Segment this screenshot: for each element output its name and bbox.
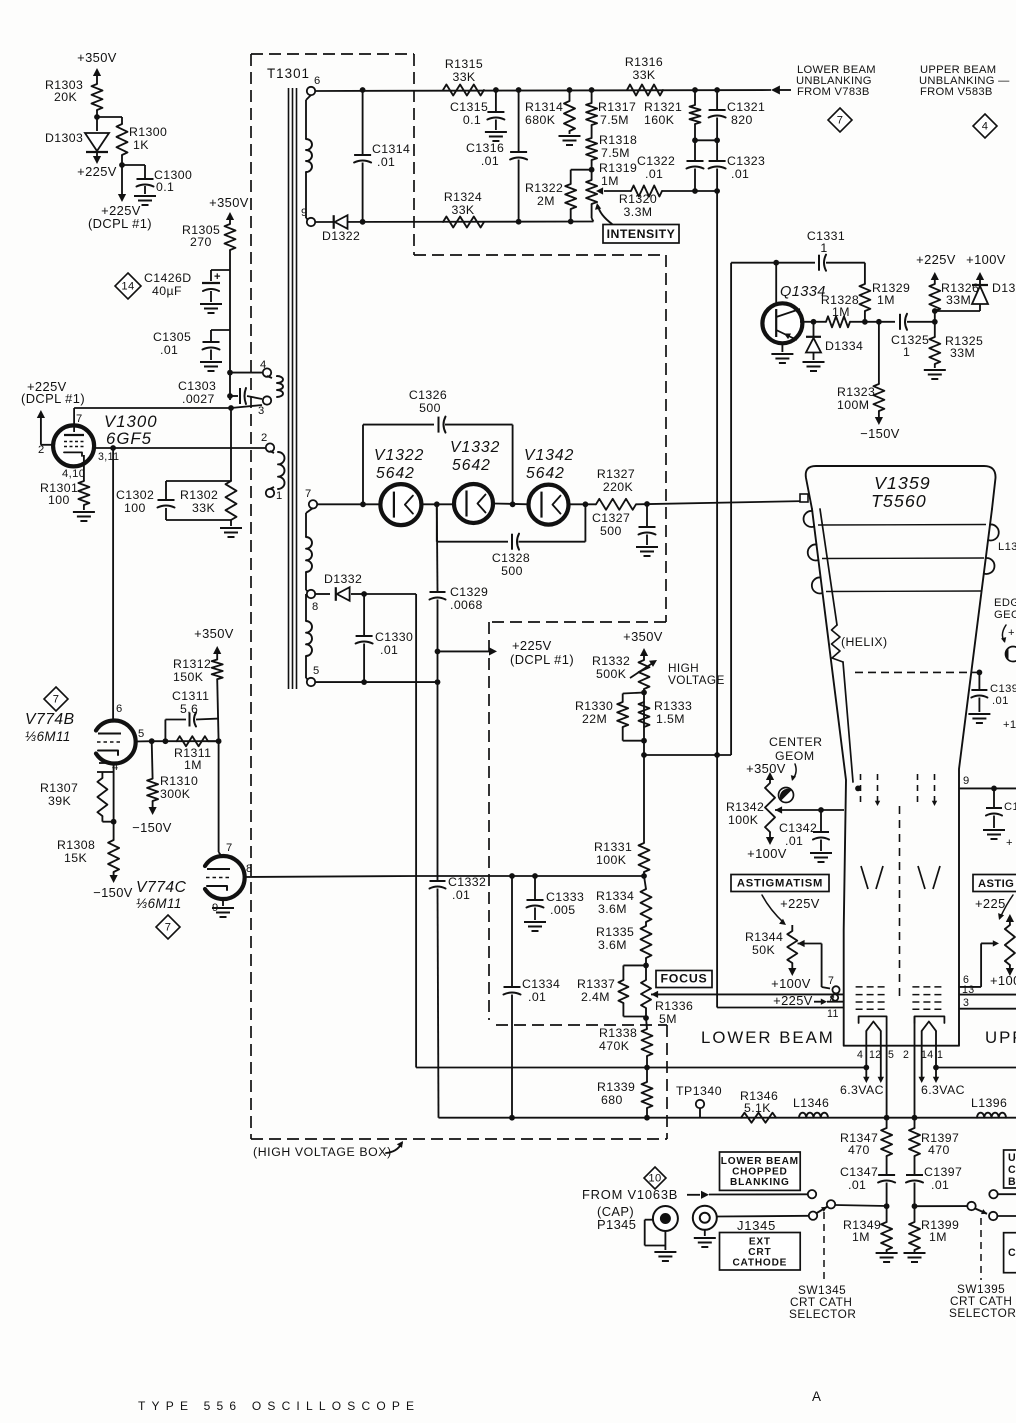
svg-text:500: 500 [501, 564, 523, 578]
svg-text:1M: 1M [184, 758, 202, 772]
svg-text:7: 7 [828, 975, 834, 987]
svg-text:R1320: R1320 [619, 192, 657, 206]
svg-text:(DCPL #1): (DCPL #1) [21, 391, 85, 406]
svg-text:R1315: R1315 [445, 57, 483, 71]
svg-text:C: C [1008, 1247, 1016, 1259]
svg-text:2.4M: 2.4M [581, 990, 610, 1004]
svg-text:4: 4 [260, 359, 267, 371]
svg-text:C1342: C1342 [779, 821, 817, 835]
svg-text:1: 1 [276, 490, 283, 502]
svg-text:.01: .01 [380, 643, 398, 657]
svg-text:GEOM: GEOM [994, 609, 1016, 621]
svg-text:2M: 2M [537, 194, 555, 208]
svg-text:R1342: R1342 [726, 800, 764, 814]
svg-text:5.1K: 5.1K [744, 1101, 771, 1115]
svg-text:7: 7 [226, 842, 233, 854]
svg-text:C1328: C1328 [492, 551, 530, 565]
svg-text:680K: 680K [525, 113, 556, 127]
svg-text:100M: 100M [837, 398, 869, 412]
svg-text:680: 680 [601, 1093, 623, 1107]
svg-text:R1302: R1302 [180, 488, 218, 502]
svg-text:100: 100 [124, 501, 146, 515]
svg-text:T5560: T5560 [871, 491, 927, 511]
svg-text:5642: 5642 [526, 465, 565, 482]
svg-text:3.6M: 3.6M [598, 902, 627, 916]
svg-text:.0068: .0068 [450, 598, 483, 612]
svg-text:7: 7 [837, 115, 844, 127]
svg-text:C1316: C1316 [466, 141, 504, 155]
svg-text:R1317: R1317 [598, 100, 636, 114]
svg-text:+225V: +225V [780, 896, 820, 911]
svg-text:.005: .005 [550, 903, 576, 917]
svg-text:1M: 1M [601, 174, 619, 188]
svg-text:R1336: R1336 [655, 999, 693, 1013]
svg-text:C139: C139 [990, 683, 1016, 695]
svg-text:V774B: V774B [25, 711, 75, 728]
svg-text:100K: 100K [596, 853, 627, 867]
svg-text:9: 9 [301, 207, 308, 219]
svg-text:INTENSITY: INTENSITY [607, 227, 676, 241]
svg-text:14: 14 [121, 281, 134, 293]
svg-text:R1314: R1314 [525, 100, 563, 114]
svg-text:Q1334: Q1334 [780, 284, 826, 300]
svg-text:C1326: C1326 [409, 388, 447, 402]
svg-text:C1302: C1302 [116, 488, 154, 502]
svg-text:FROM V783B: FROM V783B [797, 86, 870, 98]
svg-text:UPPE: UPPE [985, 1028, 1016, 1047]
svg-text:LOWER BEAM: LOWER BEAM [701, 1028, 835, 1047]
svg-text:ASTIGMATISM: ASTIGMATISM [737, 878, 823, 890]
svg-text:.0027: .0027 [182, 392, 215, 406]
svg-text:EXT: EXT [749, 1236, 771, 1247]
svg-text:D1326: D1326 [992, 281, 1016, 295]
svg-text:4: 4 [857, 1049, 863, 1061]
svg-text:R1318: R1318 [599, 133, 637, 147]
svg-text:+225: +225 [975, 896, 1006, 911]
svg-text:R1324: R1324 [444, 190, 482, 204]
svg-text:V774C: V774C [136, 879, 187, 896]
svg-text:+225V: +225V [916, 252, 956, 267]
svg-text:C1321: C1321 [727, 100, 765, 114]
svg-text:5: 5 [138, 728, 145, 740]
svg-text:ASTIG: ASTIG [978, 878, 1014, 890]
svg-text:500K: 500K [596, 667, 627, 681]
svg-text:300K: 300K [160, 787, 191, 801]
svg-text:R1338: R1338 [599, 1026, 637, 1040]
svg-text:5: 5 [888, 1049, 894, 1061]
svg-text:R1300: R1300 [129, 125, 167, 139]
svg-text:9: 9 [963, 775, 970, 787]
svg-text:C1305: C1305 [153, 330, 191, 344]
svg-text:D1322: D1322 [322, 229, 360, 243]
svg-text:33K: 33K [192, 501, 215, 515]
svg-text:⅓6M11: ⅓6M11 [25, 729, 71, 744]
svg-text:7.5M: 7.5M [601, 146, 630, 160]
svg-text:C13: C13 [1004, 801, 1016, 813]
svg-text:CHOPPED: CHOPPED [732, 1167, 788, 1178]
svg-text:1M: 1M [877, 293, 895, 307]
svg-text:⅓6M11: ⅓6M11 [136, 896, 182, 911]
svg-text:R1323: R1323 [837, 385, 875, 399]
svg-text:C: C [1008, 1164, 1016, 1176]
svg-text:470K: 470K [599, 1039, 630, 1053]
svg-text:R1339: R1339 [597, 1080, 635, 1094]
svg-text:R1344: R1344 [745, 930, 783, 944]
svg-text:0.1: 0.1 [463, 113, 481, 127]
svg-text:C1315: C1315 [450, 100, 488, 114]
svg-text:6: 6 [314, 75, 321, 87]
svg-text:.01: .01 [377, 155, 395, 169]
svg-text:39K: 39K [48, 794, 71, 808]
svg-text:470: 470 [928, 1143, 950, 1157]
svg-text:R1310: R1310 [160, 774, 198, 788]
svg-text:270: 270 [190, 235, 212, 249]
svg-text:+100V: +100V [771, 976, 811, 991]
svg-text:C1303: C1303 [178, 379, 216, 393]
svg-text:.01: .01 [452, 888, 470, 902]
svg-text:2: 2 [261, 432, 268, 444]
svg-text:0.1: 0.1 [156, 180, 174, 194]
svg-text:R1332: R1332 [592, 654, 630, 668]
svg-text:+225V: +225V [773, 993, 813, 1008]
svg-text:5: 5 [313, 665, 320, 677]
svg-text:33K: 33K [452, 70, 475, 84]
svg-text:C1323: C1323 [727, 154, 765, 168]
svg-text:.01: .01 [785, 834, 803, 848]
svg-text:R1334: R1334 [596, 889, 634, 903]
svg-text:C1333: C1333 [546, 890, 584, 904]
svg-text:+100V: +100V [966, 252, 1006, 267]
svg-text:V1322: V1322 [374, 447, 424, 464]
svg-text:470: 470 [848, 1143, 870, 1157]
svg-text:5.6: 5.6 [180, 702, 198, 716]
svg-text:.01: .01 [528, 990, 546, 1004]
svg-text:3: 3 [963, 997, 969, 1009]
svg-text:6GF5: 6GF5 [106, 429, 152, 448]
svg-text:+350V: +350V [209, 195, 249, 210]
svg-text:2: 2 [38, 444, 45, 456]
svg-text:500: 500 [419, 401, 441, 415]
svg-text:B: B [1008, 1176, 1016, 1188]
svg-text:33M: 33M [946, 293, 971, 307]
svg-text:33K: 33K [451, 203, 474, 217]
svg-text:CATHODE: CATHODE [732, 1257, 787, 1268]
svg-text:7: 7 [305, 488, 312, 500]
svg-text:8: 8 [246, 863, 253, 875]
svg-text:+: + [1008, 627, 1015, 639]
svg-text:R1322: R1322 [525, 181, 563, 195]
svg-text:R1330: R1330 [575, 699, 613, 713]
svg-text:+: + [214, 271, 221, 283]
svg-text:FOCUS: FOCUS [660, 972, 707, 986]
svg-text:3.3M: 3.3M [624, 205, 653, 219]
svg-text:2: 2 [903, 1049, 909, 1061]
svg-text:R1327: R1327 [597, 467, 635, 481]
svg-text:R1307: R1307 [40, 781, 78, 795]
svg-text:1M: 1M [832, 305, 850, 319]
svg-text:1K: 1K [133, 138, 149, 152]
svg-text:C1347: C1347 [840, 1165, 878, 1179]
svg-text:CRT: CRT [748, 1247, 771, 1258]
svg-text:+225V: +225V [77, 164, 117, 179]
svg-text:C1330: C1330 [375, 630, 413, 644]
svg-text:R1337: R1337 [577, 977, 615, 991]
svg-text:C1329: C1329 [450, 585, 488, 599]
svg-text:500: 500 [600, 524, 622, 538]
svg-text:40µF: 40µF [152, 284, 182, 298]
svg-text:(DCPL #1): (DCPL #1) [88, 216, 152, 231]
svg-text:.01: .01 [481, 154, 499, 168]
svg-text:33K: 33K [632, 68, 655, 82]
svg-text:J1345: J1345 [737, 1218, 776, 1233]
svg-text:1M: 1M [929, 1230, 947, 1244]
svg-text:14: 14 [921, 1049, 934, 1061]
svg-text:5M: 5M [659, 1012, 677, 1026]
svg-text:8: 8 [830, 994, 836, 1005]
svg-text:V1342: V1342 [524, 447, 574, 464]
svg-text:+350V: +350V [194, 626, 234, 641]
svg-text:R1308: R1308 [57, 838, 95, 852]
svg-text:160K: 160K [644, 113, 675, 127]
svg-text:(HELIX): (HELIX) [841, 635, 888, 649]
svg-text:.01: .01 [731, 167, 749, 181]
svg-text:1: 1 [903, 345, 910, 359]
svg-text:20K: 20K [54, 90, 77, 104]
svg-text:1M: 1M [852, 1230, 870, 1244]
svg-text:C1322: C1322 [637, 154, 675, 168]
svg-text:C1397: C1397 [924, 1165, 962, 1179]
svg-text:SELECTOR: SELECTOR [789, 1307, 856, 1321]
svg-text:.01: .01 [848, 1178, 866, 1192]
svg-text:R1335: R1335 [596, 925, 634, 939]
svg-text:T1301: T1301 [267, 66, 310, 81]
svg-text:U: U [1008, 1152, 1016, 1164]
svg-text:R1319: R1319 [599, 161, 637, 175]
svg-text:BLANKING: BLANKING [730, 1177, 790, 1188]
svg-text:50K: 50K [752, 943, 775, 957]
svg-text:6: 6 [116, 703, 123, 715]
svg-text:D1334: D1334 [825, 339, 863, 353]
svg-text:R1312: R1312 [173, 657, 211, 671]
svg-text:1.5M: 1.5M [656, 712, 685, 726]
svg-text:4: 4 [982, 121, 989, 133]
svg-text:1: 1 [820, 241, 827, 255]
svg-text:3: 3 [258, 405, 265, 417]
svg-text:L1346: L1346 [793, 1096, 829, 1110]
svg-text:C1334: C1334 [522, 977, 560, 991]
svg-text:7: 7 [53, 694, 60, 706]
svg-text:R1316: R1316 [625, 55, 663, 69]
svg-text:D1303: D1303 [45, 131, 83, 145]
svg-text:A: A [812, 1389, 822, 1404]
svg-text:33M: 33M [950, 346, 975, 360]
svg-text:7: 7 [165, 922, 172, 934]
svg-text:−150V: −150V [132, 820, 172, 835]
svg-text:FROM V1063B: FROM V1063B [582, 1187, 678, 1202]
svg-text:C1332: C1332 [448, 875, 486, 889]
svg-text:8: 8 [312, 601, 319, 613]
svg-text:150K: 150K [173, 670, 204, 684]
svg-text:R1333: R1333 [654, 699, 692, 713]
svg-text:15K: 15K [64, 851, 87, 865]
svg-text:+350V: +350V [746, 761, 786, 776]
svg-text:820: 820 [731, 113, 753, 127]
svg-text:L1396: L1396 [971, 1096, 1007, 1110]
svg-text:R1321: R1321 [644, 100, 682, 114]
svg-text:CENTER: CENTER [769, 735, 823, 749]
svg-text:V1332: V1332 [450, 439, 500, 456]
svg-text:+1: +1 [1003, 719, 1016, 731]
svg-text:P1345: P1345 [597, 1217, 636, 1232]
svg-text:C1314: C1314 [372, 142, 410, 156]
svg-text:+350V: +350V [623, 629, 663, 644]
svg-text:+100: +100 [990, 973, 1016, 988]
svg-text:EDGE: EDGE [994, 597, 1016, 609]
svg-text:C1426D: C1426D [144, 271, 192, 285]
svg-text:−150V: −150V [93, 885, 133, 900]
svg-text:7: 7 [76, 413, 83, 425]
svg-text:1: 1 [937, 1049, 943, 1061]
svg-text:3.6M: 3.6M [598, 938, 627, 952]
svg-text:5642: 5642 [376, 465, 415, 482]
svg-text:7.5M: 7.5M [600, 113, 629, 127]
svg-text:.01: .01 [160, 343, 178, 357]
svg-text:+350V: +350V [77, 50, 117, 65]
svg-text:C1327: C1327 [592, 511, 630, 525]
svg-text:C1311: C1311 [172, 689, 209, 703]
svg-text:22M: 22M [582, 712, 607, 726]
svg-text:+100V: +100V [747, 846, 787, 861]
svg-text:D1332: D1332 [324, 572, 362, 586]
svg-text:.01: .01 [992, 695, 1009, 707]
svg-text:10: 10 [648, 1173, 661, 1185]
svg-text:4,10: 4,10 [62, 468, 85, 480]
svg-text:(DCPL #1): (DCPL #1) [510, 652, 574, 667]
svg-text:100: 100 [48, 493, 70, 507]
svg-text:V1359: V1359 [874, 473, 931, 493]
svg-text:6.3VAC: 6.3VAC [840, 1083, 884, 1097]
svg-text:VOLTAGE: VOLTAGE [668, 673, 725, 687]
svg-text:R1331: R1331 [594, 840, 632, 854]
svg-text:FROM V583B: FROM V583B [920, 86, 993, 98]
svg-text:SELECTOR: SELECTOR [949, 1306, 1016, 1320]
svg-text:LOWER BEAM: LOWER BEAM [721, 1156, 799, 1167]
svg-text:12: 12 [869, 1049, 882, 1061]
svg-text:.01: .01 [931, 1178, 949, 1192]
svg-text:11: 11 [827, 1008, 839, 1020]
svg-text:220K: 220K [603, 480, 634, 494]
svg-text:.01: .01 [645, 167, 663, 181]
svg-text:+225V: +225V [512, 638, 552, 653]
svg-text:(HIGH VOLTAGE BOX): (HIGH VOLTAGE BOX) [253, 1145, 392, 1159]
svg-text:−150V: −150V [860, 426, 900, 441]
svg-text:L13: L13 [998, 541, 1016, 553]
svg-text:+: + [1006, 837, 1013, 849]
svg-text:6.3VAC: 6.3VAC [921, 1083, 965, 1097]
svg-text:TP1340: TP1340 [676, 1084, 722, 1098]
svg-text:5642: 5642 [452, 457, 491, 474]
svg-text:100K: 100K [728, 813, 759, 827]
svg-text:3,11: 3,11 [98, 451, 119, 463]
svg-text:TYPE 556 OSCILLOSCOPE: TYPE 556 OSCILLOSCOPE [138, 1399, 420, 1413]
